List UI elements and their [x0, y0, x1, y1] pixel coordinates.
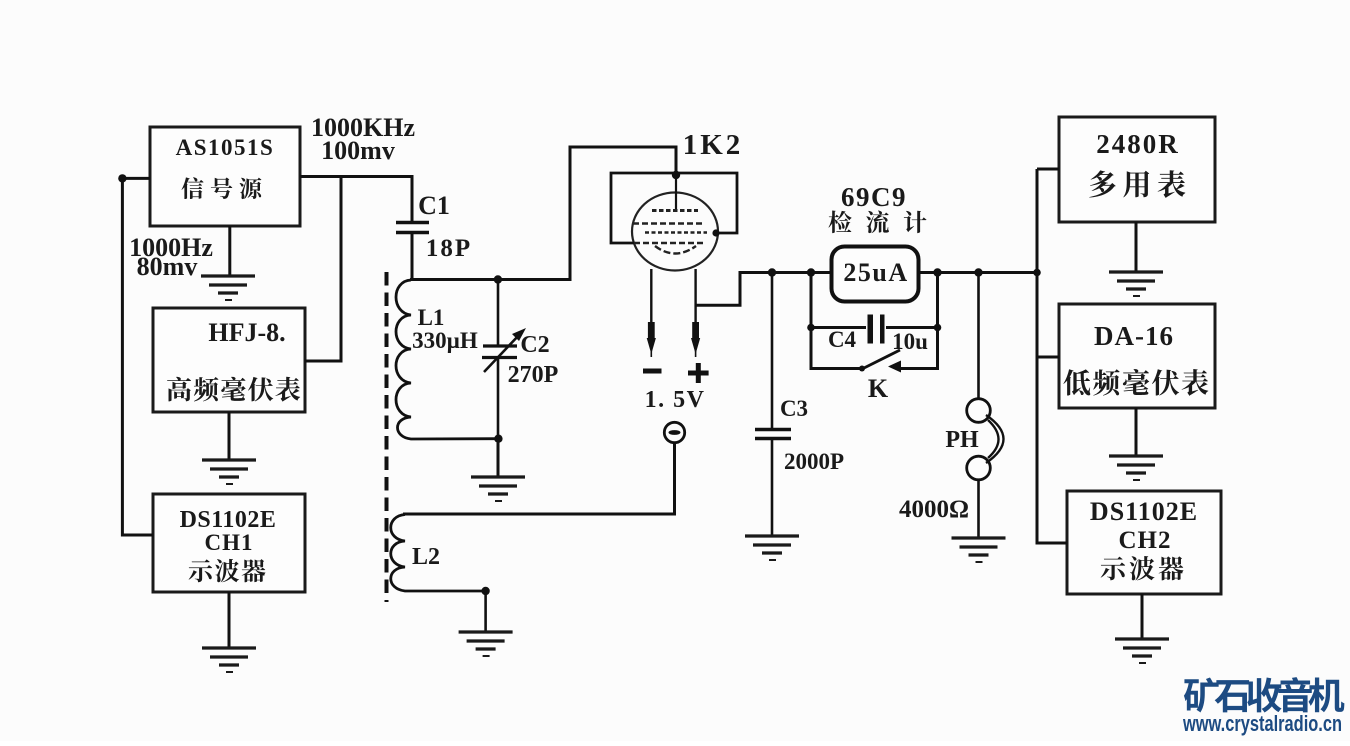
svg-text:18P: 18P [426, 235, 472, 262]
svg-text:1. 5V: 1. 5V [645, 387, 706, 413]
wire DA-16 ground stem [1135, 408, 1138, 456]
svg-text:L1: L1 [418, 305, 445, 330]
earphone PH top [967, 399, 991, 423]
box 2480R multimeter [1059, 117, 1215, 222]
box DS1102E CH1 oscilloscope [153, 494, 305, 592]
junction dot C4 left [807, 324, 815, 332]
tube top grid lead [675, 175, 677, 209]
junction dot tank/C2 [494, 275, 502, 283]
svg-text:CH1: CH1 [205, 530, 254, 555]
tube grid 1 [652, 209, 698, 212]
svg-text:HFJ-8.: HFJ-8. [208, 318, 285, 347]
wire DS1102E CH2 ground stem [1141, 594, 1144, 639]
probe arrow right [691, 338, 700, 354]
tube grid 2 [633, 222, 704, 225]
ground below DA-16 [1109, 456, 1163, 480]
junction dot PH branch [974, 268, 982, 276]
ground below DS1102E CH1 [202, 648, 256, 672]
svg-text:www.crystalradio.cn: www.crystalradio.cn [1182, 711, 1342, 736]
meter M1 25uA body [832, 247, 919, 302]
junction dot [118, 174, 126, 182]
probe plug right [692, 322, 699, 338]
svg-text:PH: PH [945, 427, 979, 453]
junction dot tube right stub [712, 229, 719, 236]
label 高频毫伏表 [167, 377, 300, 402]
wire PH ground stem [977, 480, 980, 538]
earphone PH bottom [967, 456, 991, 480]
svg-text:330µH: 330µH [412, 328, 478, 353]
tube right filament lead [694, 269, 696, 323]
watermark 矿石收音机 [1184, 677, 1344, 712]
svg-text:C2: C2 [520, 332, 549, 358]
wire AS1051S left to scope CH1 [122, 178, 153, 535]
wire 2480R ground stem [1135, 222, 1138, 272]
earphone PH band [986, 415, 1004, 463]
ground below PH [952, 538, 1006, 562]
svg-text:80mv: 80mv [137, 252, 198, 281]
label 检流计 [829, 211, 927, 234]
svg-text:L2: L2 [412, 544, 440, 570]
switch K blade [861, 350, 900, 370]
ground below L2 [459, 632, 513, 656]
svg-text:K: K [868, 374, 889, 403]
svg-text:C1: C1 [418, 191, 450, 220]
junction dot C4 right [934, 324, 942, 332]
junction dot tube top [672, 171, 680, 179]
label 信号源 [181, 177, 261, 199]
capacitor C2 plates [482, 346, 517, 358]
tube grid 3 [645, 231, 707, 234]
tube grid 4 [634, 242, 706, 245]
svg-text:DS1102E: DS1102E [1090, 497, 1198, 526]
ground below 2480R [1109, 272, 1163, 296]
wire stub to DA-16 [1037, 356, 1059, 359]
tube cathode arc [655, 246, 696, 254]
box HFJ-8 RF millivoltmeter [153, 308, 305, 412]
switch K pivot dot [859, 366, 865, 372]
wire HFJ-8 tap [305, 177, 341, 362]
tube 1K2 envelope [632, 193, 718, 271]
label 多用表 [1089, 170, 1185, 198]
ground below AS1051S [201, 276, 255, 300]
svg-text:C3: C3 [780, 396, 808, 421]
junction dot C4 branch left [807, 268, 815, 276]
svg-text:2480R: 2480R [1096, 129, 1180, 159]
tube left filament lead [650, 269, 652, 323]
wire DS1102E CH1 ground stem [228, 592, 231, 648]
label minus terminal [643, 369, 662, 374]
label 低频毫伏表 [1063, 369, 1208, 396]
label plus terminal [688, 363, 709, 383]
wire right bus vertical [1037, 169, 1067, 543]
box DS1102E CH2 oscilloscope [1067, 491, 1221, 594]
probe arrow left [647, 338, 656, 354]
capacitor C2 top lead [497, 280, 500, 346]
capacitor C3 plates [755, 430, 791, 439]
svg-text:CH2: CH2 [1119, 527, 1172, 554]
wire C2 ground stem [497, 439, 500, 477]
box AS1051S signal source [150, 127, 300, 226]
capacitor C3 bottom lead [771, 439, 774, 537]
battery 1.5V terminal [664, 422, 684, 442]
svg-text:1K2: 1K2 [683, 129, 744, 161]
svg-text:DA-16: DA-16 [1094, 321, 1174, 351]
capacitor C1 lead [411, 233, 414, 281]
transformer coupling dashed line [385, 272, 389, 602]
ground below DS1102E CH2 [1115, 639, 1169, 663]
svg-text:69C9: 69C9 [841, 182, 907, 212]
wire AS1051S right to C1 [300, 177, 412, 223]
junction dot L2 bottom [481, 587, 489, 595]
wire tube plate tap [696, 273, 831, 306]
junction dot C4 branch right [933, 268, 941, 276]
svg-text:4000Ω: 4000Ω [899, 496, 969, 523]
tube grid loop rectangle [611, 173, 737, 243]
junction dot L1 bottom [494, 435, 502, 443]
capacitor C1 plates [396, 223, 429, 233]
wire L2 ground stem [484, 591, 487, 632]
svg-text:AS1051S: AS1051S [176, 135, 275, 160]
label 示波器 CH1 [189, 559, 266, 582]
wire C4 branch right [886, 273, 938, 328]
svg-text:25uA: 25uA [843, 258, 908, 287]
capacitor C3 top lead [771, 273, 774, 430]
ground below HFJ-8 [202, 460, 256, 484]
wire PH top lead [977, 273, 980, 399]
wire switch branch left [811, 328, 863, 369]
capacitor C2 bottom lead [497, 358, 500, 439]
wire AS1051S ground stem [228, 226, 231, 276]
svg-text:100mv: 100mv [321, 136, 395, 165]
wire stub to 2480R [1037, 168, 1059, 171]
capacitor C4 plates [868, 315, 885, 344]
wire meter to right bus [919, 271, 1037, 274]
capacitor C2 arrow [484, 328, 526, 372]
inductor L1 [396, 280, 498, 439]
junction dot right bus [1033, 269, 1041, 277]
junction dot C3 branch [768, 268, 776, 276]
switch K arrow [888, 361, 901, 373]
probe plug left [648, 322, 655, 338]
wire HFJ-8 ground stem [228, 412, 231, 460]
ground below C2 [471, 477, 525, 501]
wire C4 branch left [811, 273, 866, 328]
box DA-16 LF millivoltmeter [1059, 304, 1215, 408]
svg-text:2000P: 2000P [784, 449, 844, 474]
label 示波器 CH2 [1101, 556, 1184, 580]
wire switch branch right [901, 328, 938, 369]
wire tank node to tube grid [410, 147, 676, 280]
ground below C3 [745, 536, 799, 560]
wire battery to L2 [403, 443, 675, 514]
inductor L2 [391, 515, 486, 592]
svg-text:C4: C4 [828, 327, 857, 352]
svg-text:270P: 270P [508, 362, 559, 388]
